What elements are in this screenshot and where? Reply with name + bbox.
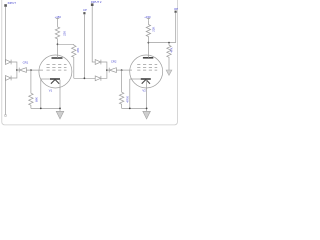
diode D6 (points left) — [109, 68, 116, 73]
V2 cathode lead — [146, 80, 148, 112]
V2 heater chevron — [142, 80, 150, 84]
svg-text:OP: OP — [174, 7, 178, 11]
power flag +150 stage1 — [55, 15, 62, 21]
ground arrow stage2 — [143, 111, 151, 119]
wire plate2 to output — [148, 42, 175, 44]
wire node to D3 — [17, 69, 19, 71]
V1 plate — [52, 57, 63, 59]
power flag +150 stage2 — [144, 15, 151, 21]
V1 plate lead — [57, 44, 59, 58]
node N2 junction dot — [106, 69, 108, 71]
V2 grids (dashed) — [137, 65, 157, 71]
wire node to D6 — [107, 69, 109, 71]
wire T1 to D1 — [5, 7, 7, 62]
V2 cathode — [130, 78, 141, 80]
V2 plate lead — [147, 43, 149, 58]
label T2 — [91, 0, 102, 4]
label R5 value — [126, 96, 130, 103]
V1 heater chevron — [51, 80, 59, 84]
svg-text:22K: 22K — [152, 27, 156, 32]
tube V2 envelope — [130, 55, 163, 88]
label R1 value — [62, 31, 66, 36]
label CR1 — [23, 61, 29, 65]
ground arrow R6 — [166, 70, 172, 75]
wire T4 down — [83, 14, 85, 78]
label R3 value — [76, 48, 80, 53]
label R4 value — [152, 27, 156, 32]
rail stage1 — [31, 107, 60, 109]
label T4 — [83, 8, 87, 12]
V2 plate — [143, 57, 153, 59]
diode D4 — [95, 60, 101, 65]
junction dot rail2 / ground — [146, 108, 148, 110]
resistor R1 (plate load) — [55, 21, 59, 45]
ground arrow stage1 — [56, 111, 64, 119]
wire plate1 to R3 — [58, 43, 74, 45]
label R6 value — [170, 47, 174, 52]
wire R3 bottom to D5 — [74, 77, 96, 79]
V1 cathode left drop wire — [40, 79, 42, 108]
label V1 — [49, 89, 53, 93]
resistor R5 (grid leak 2) — [119, 70, 123, 108]
label R2 value — [34, 97, 38, 102]
resistor R4 (plate load 2) — [146, 21, 150, 43]
V1 cathode — [41, 78, 51, 80]
node N1 junction dot — [16, 69, 18, 71]
page border — [2, 0, 178, 125]
wire D1 out — [11, 62, 17, 70]
terminal T2 (input 2) — [91, 3, 94, 6]
rail stage2 — [122, 107, 147, 109]
svg-text:V1: V1 — [49, 89, 53, 93]
wire T2 to D4 — [92, 6, 95, 62]
label V2 — [142, 88, 146, 92]
junction dot rail1 / cathode drop — [40, 108, 42, 110]
node grid1 dot — [30, 69, 32, 71]
V1 grids (dashed) — [47, 65, 67, 71]
svg-text:V2: V2 — [142, 88, 146, 92]
diode D1 — [5, 60, 11, 65]
svg-text:22K: 22K — [62, 31, 66, 36]
terminal T4 (pulse input) — [83, 12, 85, 14]
diode D3 (points left) — [19, 68, 26, 73]
wire D5 out — [101, 70, 107, 78]
wire D4 out — [101, 62, 107, 70]
node plate2 dot — [148, 42, 150, 44]
node grid2 dot — [121, 69, 123, 71]
terminal T3 (output) — [175, 11, 177, 13]
wire D2 out — [11, 70, 17, 78]
label T1 — [8, 1, 17, 5]
label CR2 — [111, 60, 117, 64]
svg-text:68K: 68K — [34, 97, 38, 102]
svg-text:47K: 47K — [170, 47, 174, 52]
junction dot rail1 / ground — [59, 108, 61, 110]
svg-text:INPUT: INPUT — [8, 1, 17, 5]
label T3 — [174, 7, 178, 11]
tube V1 envelope — [39, 55, 72, 88]
svg-text:CR1: CR1 — [23, 61, 29, 65]
terminal T1 (input 1) — [4, 4, 7, 7]
resistor R2 (grid leak) — [29, 70, 33, 108]
svg-text:CP: CP — [83, 8, 87, 12]
junction dot rail2 / cathode drop — [129, 108, 131, 110]
svg-text:CR2: CR2 — [111, 60, 117, 64]
junction dot T4/D5 — [84, 77, 86, 79]
diode D2 — [5, 76, 11, 81]
resistor R3 (coupling) — [72, 44, 76, 78]
diode D5 — [95, 76, 101, 81]
svg-text:470K: 470K — [126, 96, 130, 103]
node plate1 dot — [57, 43, 59, 45]
wire T3 down — [175, 13, 177, 43]
svg-text:47K: 47K — [76, 48, 80, 53]
V2 cathode left drop wire — [129, 79, 131, 108]
svg-text:INPUT 2: INPUT 2 — [91, 0, 102, 4]
resistor R6 (output divider) — [167, 43, 171, 70]
wire D3 to grid V1 — [26, 69, 43, 71]
V1 cathode lead — [59, 80, 61, 112]
wire D6 to grid V2 — [116, 69, 132, 71]
wire T1b to D2 — [5, 78, 8, 115]
junction dot R6 tap — [168, 42, 170, 44]
terminal T1b (input 1b, bottom-left) — [5, 115, 7, 117]
